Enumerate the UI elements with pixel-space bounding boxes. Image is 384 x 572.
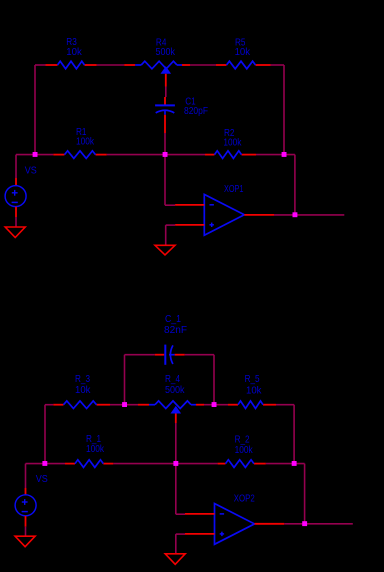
svg-text:10k: 10k bbox=[75, 385, 91, 396]
svg-text:82nF: 82nF bbox=[164, 325, 187, 336]
svg-text:100k: 100k bbox=[76, 137, 95, 148]
svg-text:R_4: R_4 bbox=[165, 374, 180, 385]
svg-text:R_2: R_2 bbox=[235, 435, 250, 446]
svg-text:820pF: 820pF bbox=[184, 106, 208, 117]
svg-text:100k: 100k bbox=[235, 445, 254, 456]
svg-text:10k: 10k bbox=[246, 385, 262, 396]
svg-text:10k: 10k bbox=[66, 47, 82, 58]
svg-text:XOP2: XOP2 bbox=[234, 494, 255, 505]
svg-text:500k: 500k bbox=[165, 385, 185, 396]
svg-text:R_5: R_5 bbox=[245, 374, 260, 385]
svg-text:100k: 100k bbox=[86, 444, 105, 455]
svg-text:VS: VS bbox=[25, 166, 37, 177]
svg-text:10k: 10k bbox=[235, 47, 251, 58]
svg-text:100k: 100k bbox=[223, 137, 242, 148]
svg-text:XOP1: XOP1 bbox=[224, 184, 244, 195]
svg-text:C_1: C_1 bbox=[165, 314, 181, 325]
svg-text:VS: VS bbox=[36, 474, 48, 485]
svg-text:500k: 500k bbox=[156, 47, 176, 58]
svg-text:R_3: R_3 bbox=[75, 374, 90, 385]
